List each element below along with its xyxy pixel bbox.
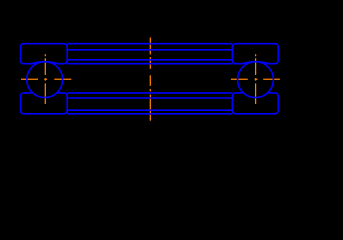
top washer top edge between sections <box>67 43 232 45</box>
main vertical axis centerline <box>149 38 151 121</box>
top washer left section block <box>21 44 68 64</box>
bottom washer left section block <box>21 93 68 114</box>
bottom washer bottom edge between sections <box>67 113 232 115</box>
left ball vertical centerline <box>44 54 46 104</box>
top washer groove shoulder line upper <box>67 49 232 51</box>
thrust ball bearing schematic drawing <box>0 0 343 187</box>
right ball <box>238 62 274 98</box>
right ball vertical centerline <box>255 54 257 104</box>
left ball <box>27 62 63 98</box>
right ball horizontal centerline <box>231 78 280 80</box>
top washer groove shoulder line lower <box>67 59 232 61</box>
top washer right section block <box>232 44 278 64</box>
bottom washer top edge between sections <box>67 92 232 94</box>
bottom washer right section block <box>232 93 278 114</box>
top washer left raceway groove arc <box>32 62 58 64</box>
left ball horizontal centerline <box>21 78 71 80</box>
top washer right raceway groove arc <box>243 62 269 64</box>
top washer bottom edge between sections <box>67 63 232 65</box>
bottom washer groove shoulder line lower <box>67 109 232 111</box>
bottom washer groove shoulder line upper <box>67 97 232 99</box>
